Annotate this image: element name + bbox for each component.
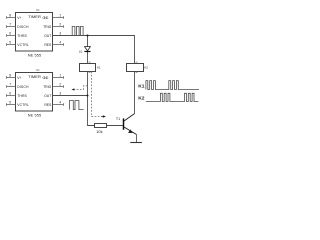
svg-text:THRS: THRS bbox=[17, 94, 27, 98]
svg-text:6: 6 bbox=[9, 32, 11, 36]
svg-text:5: 5 bbox=[9, 41, 11, 45]
svg-text:TIMER: TIMER bbox=[28, 74, 41, 79]
svg-text:IC: IC bbox=[37, 8, 40, 12]
svg-text:5: 5 bbox=[9, 101, 11, 105]
svg-text:TRIG: TRIG bbox=[43, 25, 51, 29]
svg-text:4: 4 bbox=[59, 101, 61, 105]
svg-text:2: 2 bbox=[59, 83, 61, 87]
svg-text:K2: K2 bbox=[138, 95, 145, 101]
svg-text:DISCH: DISCH bbox=[17, 85, 29, 89]
svg-text:7: 7 bbox=[9, 83, 11, 87]
svg-text:2: 2 bbox=[59, 23, 61, 27]
svg-text:1: 1 bbox=[59, 74, 61, 78]
svg-text:I0: I0 bbox=[79, 50, 82, 54]
svg-text:V+: V+ bbox=[17, 76, 21, 80]
svg-text:K1: K1 bbox=[97, 66, 101, 70]
svg-text:K2: K2 bbox=[144, 66, 148, 70]
svg-text:10k: 10k bbox=[96, 129, 102, 134]
svg-text:7: 7 bbox=[9, 23, 11, 27]
svg-text:TRIG: TRIG bbox=[43, 85, 51, 89]
svg-text:NE 555: NE 555 bbox=[28, 54, 41, 58]
svg-text:DISCH: DISCH bbox=[17, 25, 29, 29]
svg-text:VCTRL: VCTRL bbox=[17, 103, 29, 107]
svg-text:8: 8 bbox=[9, 74, 11, 78]
svg-text:1: 1 bbox=[59, 14, 61, 18]
svg-text:RES: RES bbox=[44, 103, 52, 107]
svg-text:GND: GND bbox=[43, 76, 49, 80]
svg-text:NE 555: NE 555 bbox=[28, 114, 41, 118]
svg-text:4: 4 bbox=[59, 41, 61, 45]
svg-text:RES: RES bbox=[44, 43, 52, 47]
svg-text:THRS: THRS bbox=[17, 34, 27, 38]
svg-text:IC: IC bbox=[37, 68, 40, 72]
svg-text:OUT: OUT bbox=[44, 94, 51, 98]
svg-text:OUT: OUT bbox=[44, 34, 51, 38]
svg-text:V+: V+ bbox=[17, 16, 21, 20]
svg-text:6: 6 bbox=[9, 92, 11, 96]
svg-text:K1: K1 bbox=[138, 84, 145, 90]
svg-text:8: 8 bbox=[9, 14, 11, 18]
svg-text:TIMER: TIMER bbox=[28, 14, 41, 19]
svg-text:GND: GND bbox=[43, 16, 49, 20]
svg-text:VCTRL: VCTRL bbox=[17, 43, 29, 47]
svg-text:T1: T1 bbox=[116, 117, 120, 121]
